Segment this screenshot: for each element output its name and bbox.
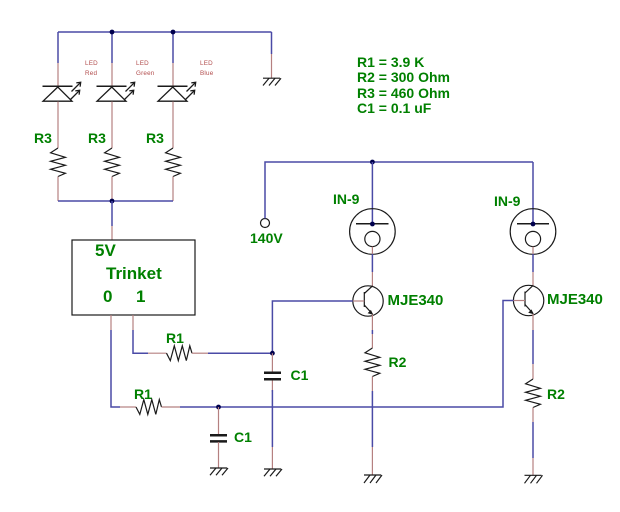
capacitor C1 b [210,435,227,441]
ground top right [263,78,281,85]
label R3 b [88,131,106,145]
resistor R3 c [166,148,181,177]
tube V2 IN-9 [510,209,556,255]
resistor R3 b [105,148,120,177]
pin Q2 base [513,300,525,302]
wire ground stub top right [271,32,273,78]
label R3 a [34,131,52,145]
wire LED bottom bus [58,200,173,202]
wire R2a to ground [371,377,373,476]
pin C1a top [271,353,273,371]
wire bus to Trinket 5V pin [111,201,113,240]
tube V1 IN-9 [350,209,396,255]
wire tube1 anode [371,162,373,224]
wire R2b to ground [532,408,534,476]
wire column3 top [172,32,174,86]
node junction R1a C1a Q1base [270,351,275,356]
wire Q2 base from bus [219,301,514,408]
wire Q1 base from node [272,301,352,353]
pin Q1 base [353,300,365,302]
resistor R3 a [51,148,66,177]
ground under R2 b [525,475,543,483]
label R1 a [166,331,184,345]
transistor Q2 MJE340 [513,285,543,315]
pin R3b bottom [111,177,113,202]
node junction tube1 anode [370,222,375,227]
pin LED1 to R3a [57,102,59,149]
wire tube2 cathode to Q2 collector [532,247,534,286]
label MJE340 Q1 [388,293,444,308]
ground under C1 b [210,468,228,475]
pin LED2 to R3b [111,102,113,149]
label MJE340 Q2 [547,292,603,307]
node junction 140V rail tube1 [370,160,375,165]
node junction top rail col3 [171,30,176,35]
label R2 a [389,355,407,369]
wire Trinket pin0 [111,315,120,407]
wire Trinket pin1 [133,315,148,353]
label LED Red [85,61,98,67]
label IN-9 tube1 [333,192,359,206]
annotation R2 = 300 Ohm [357,70,450,84]
resistor R2 b [526,379,541,408]
node junction R1b C1b bus [216,405,221,410]
label pin 0 [103,288,112,305]
label C1 a [291,368,309,382]
transistor Q1 MJE340 [353,286,383,316]
wire Q1 emitter to R2 [371,315,373,349]
pin R1a right [192,352,208,354]
resistor R2 a [365,348,380,377]
label IN-9 tube2 [494,194,520,208]
node junction bus col2 [110,199,115,204]
pin C1b to ground [218,442,220,468]
LED D2 (Green) [97,82,135,101]
wire column1 top [57,32,59,86]
wire R1b to node [180,406,219,408]
resistor R1 a [167,346,193,361]
annotation R3 = 460 Ohm [357,86,450,100]
annotation R1 = 3.9 K [357,55,424,69]
label LED Blue [200,61,213,67]
terminal 140V [261,219,270,228]
capacitor C1 a [264,373,281,379]
label pin 1 [136,288,145,305]
pin R1b right [162,406,181,408]
pin R1b left [120,406,136,408]
label Trinket [106,265,162,282]
pin LED3 to R3c [172,102,174,149]
label LED Green [136,61,149,67]
Trinket U1 box [72,240,195,315]
wire column2 top [111,32,113,86]
pin C1b top [218,407,220,435]
node junction tube2 anode [531,222,536,227]
label 5V [95,242,116,259]
resistor R1 b [136,400,162,415]
wire top rail [58,31,272,33]
label R3 c [146,131,164,145]
LED D1 (Red) [43,82,81,101]
pin R3a bottom [57,177,59,202]
LED D3 (Blue) [158,82,196,101]
ground under C1 a [264,469,282,476]
wire tube2 anode drop [532,162,534,224]
wire C1a to ground [271,381,273,470]
label R1 b [134,387,152,401]
annotation C1 = 0.1 uF [357,101,431,115]
pin R1a left [148,352,167,354]
node junction top rail col2 [110,30,115,35]
pin R3c bottom [172,177,174,202]
label C1 b [234,430,252,444]
label R2 b [547,387,565,401]
wire tube1 cathode to Q1 collector [371,247,373,286]
ground under R2 a [364,475,382,483]
label 140V [250,231,283,245]
wire 140V rail [265,162,533,219]
wire R1a to node [208,352,272,354]
wire Q2 emitter to R2 [532,314,534,379]
